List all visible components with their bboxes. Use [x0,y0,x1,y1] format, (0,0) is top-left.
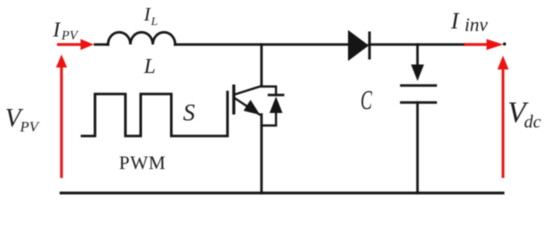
svg-text:dc: dc [524,112,541,132]
svg-text:I: I [52,18,61,42]
svg-text:C: C [361,85,373,115]
svg-text:L: L [150,14,158,28]
svg-text:PV: PV [19,120,40,136]
svg-text:inv: inv [465,15,489,36]
svg-text:PV: PV [61,28,80,43]
svg-text:PWM: PWM [119,153,166,174]
svg-text:I: I [450,9,460,34]
svg-text:L: L [143,54,156,78]
svg-text:S: S [183,101,195,127]
